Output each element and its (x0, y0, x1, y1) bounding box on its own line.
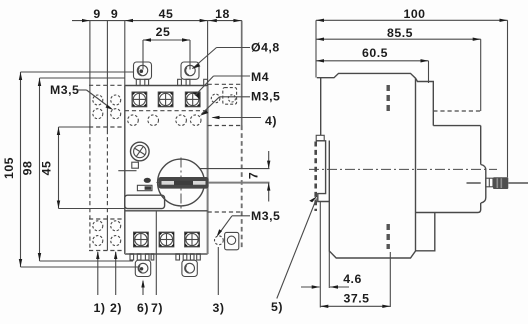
svg-text:M3,5: M3,5 (50, 83, 79, 97)
svg-text:5): 5) (271, 300, 283, 314)
leader diameter 4,8 (192, 48, 250, 70)
knob block side (493, 177, 508, 189)
extension line x=390.3 (37.5) (389, 252, 391, 307)
bottom clamp terminal 2 (182, 260, 197, 276)
top clamp terminal 2 (181, 62, 199, 79)
svg-text:45: 45 (159, 7, 174, 21)
top clamp terminal 1 (134, 62, 152, 79)
top clamp terminal 2 feet (178, 79, 182, 85)
right attachment top: hidden circle (211, 94, 220, 103)
centerline segment left (118, 170, 136, 172)
svg-text:7): 7) (151, 301, 163, 315)
knob centerline horizontal (157, 182, 207, 184)
bottom clamp terminal 2 feet (176, 254, 180, 260)
dim 100 (316, 19, 508, 22)
small square indicator (132, 162, 139, 168)
front recess edge (433, 125, 480, 127)
svg-text:9: 9 (93, 7, 100, 21)
side body top profile (317, 73, 434, 125)
dim 37.5 (320, 305, 390, 308)
svg-text:9: 9 (111, 7, 118, 21)
right attachment top bottom hidden edge (208, 125, 242, 127)
lower section top edge (125, 210, 208, 212)
wire entry circle c (176, 115, 187, 126)
dim 98 vertical (38, 78, 133, 261)
leader 1) (97, 252, 99, 295)
DIN rail hidden line (314, 142, 317, 212)
svg-text:3): 3) (213, 301, 225, 315)
extension line x=507.5 (507, 20, 509, 177)
extension line x=320.3 lower (319, 202, 321, 308)
svg-text:Ø4,8: Ø4,8 (251, 41, 280, 55)
terminal square 1 bottom (134, 232, 149, 246)
leader M3,5 left (78, 90, 114, 110)
leader 3) (217, 247, 219, 295)
front face upper (480, 126, 482, 165)
wire entry circle b (148, 115, 159, 126)
dim 25 (143, 38, 190, 69)
wire entry circle d (M3,5 target) (190, 115, 201, 126)
svg-text:4.6: 4.6 (343, 272, 362, 286)
hidden top edge right attachment (dashed) (208, 83, 242, 85)
svg-text:100: 100 (403, 7, 425, 21)
left auxiliary contact block bottom (hidden) circles (89, 219, 124, 251)
extension line x=428.5 (428, 61, 430, 83)
hidden top edge left (dashed) (89, 84, 125, 86)
knob centerline vertical (180, 158, 182, 209)
leader M4 (195, 76, 250, 96)
wire entry circle row: circle a (128, 115, 139, 126)
label window (125, 195, 165, 208)
body outline front view (125, 84, 208, 254)
right attachment bottom: bracket with circle (225, 232, 239, 249)
terminal square 3 bottom (185, 232, 200, 246)
reset window small rect (137, 185, 152, 190)
hidden line under squares (125, 110, 208, 112)
extension line x=329.3 lower (4.6) (328, 251, 330, 288)
svg-text:60.5: 60.5 (362, 46, 388, 60)
rotary knob circle (158, 159, 205, 206)
hidden slot top (387, 85, 390, 114)
right attachment top: bracket with circle (223, 88, 237, 105)
terminal square 1 top (132, 92, 146, 106)
DIN notch area (316, 78, 329, 202)
centerline side view (309, 168, 497, 170)
bottom clamp terminal 1 (135, 260, 150, 276)
svg-text:2): 2) (110, 301, 122, 315)
dim 105 vertical (19, 72, 138, 267)
terminal square 2 top (158, 92, 172, 106)
dim 4.6 (301, 285, 349, 288)
svg-text:18: 18 (215, 7, 230, 21)
svg-text:4): 4) (265, 114, 277, 128)
leader M3,5 right upper (200, 97, 250, 116)
hidden edge front top (433, 110, 480, 112)
extension line x=242 (18 dim / attachment edge) (241, 21, 243, 126)
extension line left x=316 (315, 20, 317, 77)
knob handle bar (158, 177, 208, 189)
svg-text:105: 105 (2, 157, 16, 179)
svg-text:M3,5: M3,5 (251, 209, 280, 223)
svg-text:M3,5: M3,5 (251, 90, 280, 104)
internal division line bottom section / leader 7) (155, 211, 157, 295)
extension line x=107.5 (9 dim) solid then hidden dashed (106, 21, 108, 130)
right attachment bottom: hidden circle (M3,5 target) (215, 236, 224, 245)
dim 7 arrows (267, 151, 270, 202)
knob boss bump (481, 165, 486, 204)
svg-text:6): 6) (137, 301, 149, 315)
extension line x=125 top (124, 21, 126, 86)
leader 2) (115, 252, 117, 295)
svg-text:1): 1) (94, 301, 106, 315)
leader arrow 6) (141, 280, 144, 296)
left auxiliary contact block top (hidden) circles (89, 95, 124, 127)
gray line through knob axis (467, 182, 481, 184)
dim 45 vertical (57, 127, 125, 209)
svg-text:25: 25 (156, 25, 171, 39)
knob shaft small rects (486, 178, 493, 187)
dim 7 extension lines (200, 168, 270, 170)
svg-text:7: 7 (247, 172, 261, 179)
extension line x=90 (9 dim) solid then hidden dashed (89, 21, 91, 130)
leader arrow 4) (212, 116, 262, 119)
dim 85.5 (316, 38, 481, 41)
selector screw (131, 142, 150, 161)
svg-text:85.5: 85.5 (387, 26, 413, 40)
hidden slot bottom (387, 224, 390, 249)
dim chain line 9/9/45/18 (72, 19, 242, 22)
svg-text:98: 98 (21, 161, 35, 176)
bottom clamp terminal 1 feet (130, 254, 134, 260)
top clamp terminal 1 feet (136, 79, 140, 85)
terminal square 3 top (M4 target) (186, 92, 200, 106)
terminal square 2 bottom (159, 232, 174, 246)
dim 60.5 (316, 59, 429, 62)
leader M3,5 right lower (217, 216, 251, 237)
extension line x=480.7 (480, 39, 482, 111)
right attachment bottom: hidden top edge (208, 211, 242, 213)
leader 5) (277, 196, 318, 299)
internal front vertical (329, 78, 415, 258)
extension line x=207.8 top (207, 21, 209, 85)
front face lower (416, 203, 481, 213)
small oval indicator (144, 178, 151, 183)
svg-text:45: 45 (40, 161, 54, 176)
svg-text:37.5: 37.5 (344, 292, 370, 306)
svg-text:M4: M4 (251, 70, 269, 84)
front foot (416, 213, 435, 251)
